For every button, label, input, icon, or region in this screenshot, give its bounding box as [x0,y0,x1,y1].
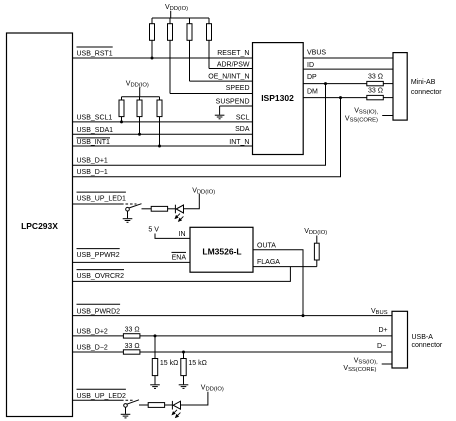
ground symbol on SUSPEND [215,106,225,119]
wire VSS to Mini-AB [382,115,393,117]
junction D+2 pull-down [154,334,157,337]
LED D2 triangle [173,401,180,409]
wire resistor to LED1 [168,208,176,210]
LED D2 emission arrows [172,410,180,418]
wire USB_UP_LED2 dashed link [121,399,133,401]
svg-text:RESET_N: RESET_N [217,50,249,57]
ground symbol under switch S2 [121,407,131,418]
wire USB_PPWR2 / ENA net [73,261,191,263]
svg-text:INT_N: INT_N [229,139,249,146]
USB-A connector body [392,311,408,368]
svg-text:USB_D+1: USB_D+1 [77,157,108,164]
wire USB_SCL1 / SCL net [73,121,253,123]
ground symbol under switch S1 [123,211,133,222]
resistor 33ohm D-2 body [123,350,139,354]
wire resistor to LED2 [165,404,173,406]
svg-text:VBUS: VBUS [371,308,388,316]
wire USB_D+1 to DP [73,84,326,166]
LED D1 cathode bar [174,205,176,214]
junction RESET_N pull-up [151,57,154,60]
wire VDD stem I2C group [139,87,141,97]
svg-text:USB_D+2: USB_D+2 [77,329,108,336]
wire USB_RST1 / RESET_N net [73,57,253,59]
svg-text:USB_SCL1: USB_SCL1 [77,114,113,121]
wire USB_OVRCR2 to FLAGA [73,267,291,282]
svg-text:SPEED: SPEED [226,85,250,92]
resistor pull-up SPEED [168,18,173,94]
junction SDA pull-up [138,133,141,136]
wire USB_INT1 / INT_N net [73,145,253,147]
svg-text:USB_UP_LED2: USB_UP_LED2 [77,393,127,400]
svg-text:15 kΩ: 15 kΩ [160,360,178,367]
svg-text:VDD(IO): VDD(IO) [304,228,327,236]
wire VDD to pull-up resistor [316,236,318,244]
switch S2 contact [124,404,128,408]
svg-text:VSS(IO),: VSS(IO), [354,358,378,366]
svg-text:USB_D−1: USB_D−1 [77,169,108,176]
svg-text:USB_D−2: USB_D−2 [77,345,108,352]
svg-text:ADR/PSW: ADR/PSW [217,61,250,68]
svg-text:LM3526-L: LM3526-L [202,247,241,257]
resistor 15k (D-2) body [181,359,186,376]
wire pull-up resistor to FLAGA [316,260,318,267]
svg-text:DM: DM [307,89,318,96]
wire VDD stem top group [170,11,172,18]
wire ADR/PSW net [209,68,253,70]
resistor 33ohm DP body [367,81,384,85]
IC U1 LPC293X body [7,33,73,417]
svg-text:USB-A: USB-A [412,334,434,341]
svg-text:SCL: SCL [236,114,250,121]
svg-text:SDA: SDA [235,126,250,133]
svg-text:ENA: ENA [172,255,187,262]
wire 15k to ground (D-2) [183,376,185,385]
svg-text:VBUS: VBUS [307,50,326,57]
svg-text:VSS(IO),: VSS(IO), [354,108,378,116]
junction INT_N pull-up [158,145,161,148]
svg-text:VDD(IO): VDD(IO) [126,80,149,88]
wire USB_PWRD2 / VBUS-A net [73,315,393,317]
svg-text:USB_RST1: USB_RST1 [77,51,113,58]
IC U2 ISP1302 body [253,43,304,155]
resistor pull-up SCL [119,97,124,122]
wire LED2 to VDD riser [181,392,208,405]
wire 15k to ground [154,376,156,385]
wire switch S1 to resistor [142,208,152,210]
svg-text:D+: D+ [378,327,387,334]
wire pull-up bus top group [152,17,209,19]
svg-text:VDD(IO): VDD(IO) [192,188,215,196]
svg-text:Mini-AB: Mini-AB [411,79,436,86]
svg-text:FLAGA: FLAGA [257,259,280,266]
wire USB_UP_LED2 [73,399,122,401]
net label USB_PPWR2 overbar [77,248,120,250]
resistor pull-up SDA [137,97,142,135]
svg-text:USB_SDA1: USB_SDA1 [77,127,114,134]
wire VBUS net (ISP1302) [303,57,393,59]
svg-text:USB_OVRCR2: USB_OVRCR2 [77,273,125,280]
svg-text:OE_N/INT_N: OE_N/INT_N [208,73,249,80]
svg-text:ISP1302: ISP1302 [261,93,294,103]
svg-text:USB_PWRD2: USB_PWRD2 [77,308,121,315]
resistor pull-up ADR/PSW [207,18,212,69]
wire SPEED net [170,93,253,95]
wire DP net [303,83,367,85]
switch S2 lever [127,400,139,404]
svg-text:33 Ω: 33 Ω [125,343,140,350]
svg-text:ID: ID [307,62,314,69]
switch S1 contact [126,207,130,211]
wire ID net [303,68,393,70]
svg-text:SUSPEND: SUSPEND [216,98,250,105]
ground symbol under 15k (D-2) [179,385,189,389]
net label USB_OVRCR2 overbar [77,269,125,271]
wire VSS to USB-A [382,363,392,365]
IC U3 LM3526-L body [190,227,253,272]
LED D1 triangle [176,205,183,213]
svg-text:IN: IN [179,231,186,238]
wire OUTA to VBUS net [253,250,303,316]
resistor FLAGA pull-up body [314,243,319,260]
net label USB_UP_LED1 overbar [77,191,126,193]
svg-text:USB_UP_LED1: USB_UP_LED1 [77,196,127,203]
svg-text:OUTA: OUTA [257,242,276,249]
wire D+2 to 15k resistor [154,336,156,359]
resistor pull-up RESET_N [150,18,155,58]
svg-text:LPC293X: LPC293X [21,221,58,231]
resistor pull-up INT_N [157,97,162,146]
junction D-2 pull-down [182,351,185,354]
net label USB_INT1 overbar [77,137,111,139]
resistor LED1 series body [151,206,167,211]
wire pull-up bus I2C group [122,96,160,98]
svg-text:VDD(IO): VDD(IO) [165,4,188,12]
wire USB_D-2 net [73,351,124,353]
LED D2 cathode bar [171,401,173,410]
resistor 33ohm D+2 body [123,334,139,338]
wire USB_D+2 to D+ [140,335,392,337]
wire DM resistor to connector [383,97,393,99]
svg-text:33 Ω: 33 Ω [125,327,140,334]
switch S1 lever [129,204,142,208]
wire OE_N/INT_N net [190,80,253,82]
junction USB_D-1/DM [339,96,342,99]
Mini-AB connector body [393,53,407,121]
wire USB_SDA1 / SDA net [73,133,253,135]
LED D1 emission arrows [175,214,183,222]
wire LED1 to VDD riser [184,194,200,209]
wire USB_D-1 to DM [73,98,341,177]
net label USB_UP_LED2 overbar [77,388,126,390]
wire USB_UP_LED1 dashed link [121,203,137,205]
resistor pull-up OE_N/INT_N [187,18,192,81]
svg-text:connector: connector [412,342,443,349]
wire DM net [303,97,367,99]
svg-text:USB_PPWR2: USB_PPWR2 [77,252,120,259]
svg-text:15 kΩ: 15 kΩ [188,360,206,367]
wire USB_D-2 to D- [140,351,392,353]
wire USB_D+2 net [73,335,124,337]
wire FLAGA net [253,266,317,268]
wire D-2 to 15k resistor [183,352,185,359]
wire switch S2 to resistor [139,404,148,406]
wire 5V to IN pin [155,234,190,239]
svg-text:D−: D− [377,343,386,350]
ground symbol under 15k (D+2) [150,385,160,389]
svg-text:USB_INT1: USB_INT1 [77,139,111,146]
wire DP resistor to connector [383,83,393,85]
junction SCL pull-up [120,120,123,123]
wire SUSPEND net [220,105,253,107]
svg-text:connector: connector [411,89,442,96]
svg-text:33 Ω: 33 Ω [368,74,383,81]
net label USB_RST1 overbar [77,46,113,48]
junction OUTA/VBUS [302,314,305,317]
resistor 15k (D+2) body [152,359,157,376]
svg-text:DP: DP [307,74,317,81]
wire USB_UP_LED1 [73,203,122,205]
pin label ENA overbar [172,251,187,253]
svg-text:33 Ω: 33 Ω [368,87,383,94]
net label USB_PWRD2 overbar [77,303,121,305]
junction USB_D+1/DP [324,82,327,85]
resistor 33ohm DM body [367,95,384,99]
svg-text:VSS(CORE): VSS(CORE) [343,365,376,373]
svg-text:VDD(IO): VDD(IO) [201,385,224,393]
svg-text:VSS(CORE): VSS(CORE) [345,116,378,124]
resistor LED2 series body [148,403,164,408]
svg-text:5 V: 5 V [148,227,159,234]
